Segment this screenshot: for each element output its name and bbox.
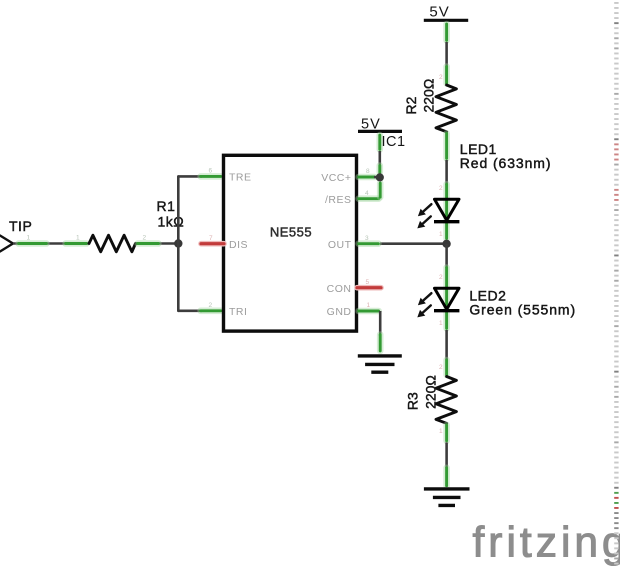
label R2 value 220&#937; bbox=[420, 79, 436, 113]
R3 top leg (green) bbox=[443, 360, 450, 375]
svg-text:1: 1 bbox=[439, 231, 443, 238]
label R3 value 220&#937; bbox=[422, 375, 438, 409]
svg-text:5V: 5V bbox=[361, 117, 381, 133]
svg-text:NE555: NE555 bbox=[270, 225, 312, 240]
svg-text:OUT: OUT bbox=[328, 239, 352, 251]
wire R3 to ground bbox=[445, 442, 448, 468]
svg-text:220Ω: 220Ω bbox=[422, 375, 438, 409]
label R1 value 1k&#937; bbox=[158, 214, 185, 230]
svg-text:2: 2 bbox=[439, 185, 443, 192]
wire 5V to node bbox=[378, 151, 381, 174]
GND pin leg (green) bbox=[359, 308, 379, 315]
pin number 5 (CON) bbox=[365, 279, 369, 286]
LED LED1 (red) bbox=[434, 199, 459, 221]
wire to TRE pin bbox=[178, 175, 202, 178]
wire VCC to node bbox=[374, 176, 380, 179]
LED1 light arrows bbox=[417, 204, 431, 228]
svg-text:8: 8 bbox=[366, 168, 370, 175]
ground lead (green) bbox=[377, 335, 384, 351]
VCC+ pin leg (green) bbox=[359, 174, 375, 181]
wire OUT to node C bbox=[380, 242, 443, 245]
label LED1 bbox=[460, 141, 497, 157]
pin number 1 (GND) bbox=[366, 302, 370, 309]
ground symbol (rail) bbox=[424, 489, 470, 506]
connector J1 TIP bbox=[0, 236, 13, 252]
pin label VCC+ bbox=[321, 172, 351, 184]
svg-text:2: 2 bbox=[142, 235, 146, 242]
svg-text:VCC+: VCC+ bbox=[321, 172, 351, 184]
R3 bottom leg (green) bbox=[443, 425, 450, 441]
wire TIP to R1 bbox=[13, 242, 175, 245]
TRE pin leg (green) bbox=[201, 173, 221, 180]
5V rail leg (green) bbox=[443, 24, 450, 40]
LED LED2 (green) bbox=[434, 288, 459, 310]
svg-text:TRE: TRE bbox=[229, 172, 252, 184]
svg-text:Red (633nm): Red (633nm) bbox=[460, 155, 552, 171]
svg-text:1: 1 bbox=[76, 235, 80, 242]
wire R2 to LED1 bbox=[445, 160, 448, 185]
pin number 2 (R2) bbox=[439, 74, 443, 81]
node B junction dot (VCC) bbox=[376, 173, 384, 181]
svg-text:4: 4 bbox=[365, 190, 369, 197]
svg-text:TIP: TIP bbox=[9, 218, 32, 234]
pin number 1 (R3) bbox=[439, 428, 443, 435]
pin number 2 (R1) bbox=[142, 235, 146, 242]
resistor R1 bbox=[89, 235, 136, 252]
wire /RES riser (green) bbox=[377, 183, 384, 197]
5V leg lower (green) bbox=[376, 166, 383, 173]
label TIP bbox=[9, 218, 32, 234]
svg-text:IC1: IC1 bbox=[382, 134, 406, 150]
resistor R3 bbox=[436, 377, 456, 424]
svg-text:1: 1 bbox=[439, 428, 443, 435]
svg-text:220Ω: 220Ω bbox=[420, 79, 436, 113]
wire LED2 to R3 bbox=[445, 330, 448, 360]
pin label /RES bbox=[325, 194, 352, 206]
svg-text:CON: CON bbox=[327, 283, 352, 295]
R1 right leg (green) bbox=[138, 240, 159, 247]
node C junction dot (OUT) bbox=[442, 240, 450, 248]
svg-text:DIS: DIS bbox=[229, 239, 248, 251]
node A junction dot bbox=[174, 239, 182, 247]
svg-text:R1: R1 bbox=[157, 198, 176, 214]
pin number 1 (TIP) bbox=[26, 235, 30, 242]
DIS pin stub (red, unconnected) bbox=[201, 241, 224, 247]
pin number 4 (/RES) bbox=[365, 190, 369, 197]
svg-text:GND: GND bbox=[327, 306, 352, 318]
svg-text:TRI: TRI bbox=[229, 306, 247, 318]
label LED2 value Green (555nm) bbox=[469, 301, 576, 317]
TRI pin leg (green) bbox=[201, 307, 221, 314]
pin label TRE bbox=[229, 172, 252, 184]
pin label OUT bbox=[328, 239, 352, 251]
LED2 light arrows bbox=[417, 293, 431, 317]
svg-text:2: 2 bbox=[208, 302, 212, 309]
svg-text:5: 5 bbox=[365, 279, 369, 286]
OUT pin leg (green) bbox=[359, 240, 379, 247]
R1 left leg (green) bbox=[66, 240, 87, 247]
svg-text:2: 2 bbox=[439, 364, 443, 371]
pin number 1 (R1) bbox=[76, 235, 80, 242]
svg-text:1: 1 bbox=[439, 320, 443, 327]
pin number 7 (DIS) bbox=[209, 235, 213, 242]
right edge cropped palette strip bbox=[614, 2, 618, 565]
svg-text:7: 7 bbox=[209, 235, 213, 242]
wire GND down bbox=[379, 311, 382, 336]
wire vertical TRE-TRI bus bbox=[177, 176, 180, 310]
svg-text:1: 1 bbox=[366, 302, 370, 309]
label R2 bbox=[403, 96, 419, 114]
resistor R2 bbox=[436, 85, 456, 132]
wire node C to LED2 bbox=[445, 244, 448, 268]
svg-text:Green (555nm): Green (555nm) bbox=[469, 301, 576, 317]
op-amp/IC U1 NE555 body bbox=[224, 155, 357, 331]
label 5V (IC1 supply) bbox=[361, 117, 381, 133]
/RES pin leg (green) bbox=[359, 195, 379, 202]
LED1 anode leg (green) bbox=[443, 184, 450, 238]
pin number 2 (TRI) bbox=[208, 302, 212, 309]
label R1 bbox=[157, 198, 176, 214]
wire 5V to R2 bbox=[445, 42, 448, 85]
pin label GND bbox=[327, 306, 352, 318]
svg-text:6: 6 bbox=[208, 168, 212, 175]
ground lead 2 (green) bbox=[443, 468, 450, 486]
wire to TRI pin bbox=[178, 309, 202, 312]
fritzing watermark bbox=[473, 520, 620, 567]
pin number 1 (LED1) bbox=[439, 231, 443, 238]
TIP pin leg (green) bbox=[19, 240, 47, 247]
pin number 2 (LED2) bbox=[439, 274, 443, 281]
power 5V symbol (IC1 supply) bar bbox=[358, 130, 402, 133]
IC label NE555 bbox=[270, 225, 312, 240]
pin number 8 (VCC+) bbox=[366, 168, 370, 175]
label LED2 bbox=[469, 287, 506, 303]
label LED1 value Red (633nm) bbox=[460, 155, 552, 171]
label R3 bbox=[405, 392, 421, 410]
5V leg upper (green) bbox=[376, 135, 383, 149]
svg-text:R3: R3 bbox=[405, 392, 421, 410]
R2 bottom leg (green) bbox=[443, 133, 450, 158]
R2 top leg (green) bbox=[443, 67, 450, 84]
pin number 3 (OUT) bbox=[365, 235, 369, 242]
svg-text:/RES: /RES bbox=[325, 194, 352, 206]
ground symbol (IC) bbox=[358, 356, 402, 372]
svg-text:1: 1 bbox=[26, 235, 30, 242]
LED2 anode leg (green) bbox=[443, 268, 450, 329]
svg-text:1kΩ: 1kΩ bbox=[158, 214, 185, 230]
pin number 6 (TRE) bbox=[208, 168, 212, 175]
pin number 2 (LED1) bbox=[439, 185, 443, 192]
pin label TRI bbox=[229, 306, 247, 318]
svg-text:R2: R2 bbox=[403, 96, 419, 114]
pin number 2 (R3) bbox=[439, 364, 443, 371]
pin label DIS bbox=[229, 239, 248, 251]
power 5V symbol (rail) bar bbox=[424, 19, 468, 22]
svg-text:2: 2 bbox=[439, 274, 443, 281]
svg-text:3: 3 bbox=[365, 235, 369, 242]
label IC1 bbox=[382, 134, 406, 150]
pin label CON bbox=[327, 283, 352, 295]
pin number 1 (LED2) bbox=[439, 320, 443, 327]
svg-text:5V: 5V bbox=[429, 3, 449, 20]
svg-text:fritzing: fritzing bbox=[473, 520, 620, 567]
label 5V (rail) bbox=[429, 3, 449, 20]
svg-text:2: 2 bbox=[439, 74, 443, 81]
CON pin stub (red, unconnected) bbox=[357, 285, 381, 291]
